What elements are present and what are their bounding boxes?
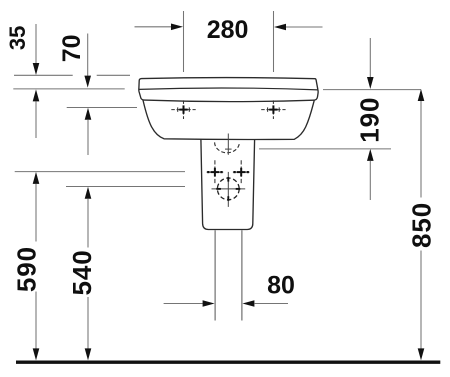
dimension 35 up arrowhead	[33, 89, 40, 101]
extension line for 590 (pedestal upper holes)	[15, 171, 185, 173]
extension line for 540 (pedestal lower hole)	[66, 186, 185, 188]
dimension 280 right arrow line	[286, 26, 323, 28]
drain pipe right line	[241, 230, 243, 320]
svg-text:280: 280	[207, 16, 249, 44]
drain centerline tick	[225, 148, 232, 150]
dimension 190 upper leader	[369, 38, 371, 77]
svg-text:540: 540	[67, 249, 97, 295]
dimension 80 right arrow line	[254, 303, 288, 305]
dimension 70 up arrowhead	[85, 108, 92, 120]
rim front edge line	[139, 88, 318, 90]
dimension 80 left arrow line	[164, 303, 203, 305]
svg-text:190: 190	[355, 97, 385, 143]
svg-text:35: 35	[5, 26, 30, 50]
pedestal drain circle target	[212, 172, 246, 207]
dimension 190 down arrowhead	[367, 77, 374, 89]
dimension 280 left arrowhead	[171, 24, 183, 31]
dimension 540 line lower	[87, 297, 89, 349]
dimension 70 upper leader	[87, 34, 89, 76]
dimension 850 up arrowhead	[418, 89, 425, 101]
floor line	[16, 361, 440, 364]
dimension 80 left arrowhead	[203, 300, 215, 307]
dimension 280 extension line left	[183, 11, 185, 72]
extension line A left segment	[14, 74, 73, 76]
drain hole dashed arc behind pedestal top	[215, 142, 240, 152]
washbasin rim band	[139, 78, 318, 102]
dimension 35 down arrowhead	[33, 63, 40, 75]
washbasin bowl fill	[143, 98, 315, 140]
pedestal (siphon cover)	[201, 139, 255, 230]
extension line A right segment	[97, 74, 130, 76]
dimension 35 lower leader	[35, 101, 37, 138]
dimension 280 left arrow line	[135, 26, 172, 28]
washbasin bowl outline	[143, 99, 315, 140]
dimension 280 extension line right	[273, 11, 275, 72]
tap/fixing hole cross left on basin	[171, 100, 195, 119]
dimension 590 up arrowhead	[33, 172, 40, 184]
dimension 35 upper leader	[35, 24, 37, 64]
svg-text:850: 850	[406, 202, 436, 248]
dimension 190 up arrowhead	[367, 149, 374, 161]
extension line B	[13, 88, 124, 90]
extension line C	[67, 107, 137, 109]
dimension 590 line upper	[35, 184, 37, 242]
dimension 540 up arrowhead	[85, 187, 92, 199]
dimension 70 down arrowhead	[84, 76, 91, 88]
dimension 590 down arrowhead	[33, 348, 40, 360]
dimension 70 lower leader	[87, 120, 89, 155]
dimension 280 right arrowhead	[274, 24, 286, 31]
svg-text:80: 80	[267, 271, 295, 299]
svg-text:590: 590	[12, 246, 42, 292]
dimension 540 line upper	[87, 199, 89, 248]
tap/fixing hole cross right on basin	[261, 100, 285, 119]
pedestal fixing hole cross right	[233, 160, 250, 184]
extension line rim to 850	[323, 89, 421, 91]
dimension 540 down arrowhead	[85, 348, 92, 360]
dimension 850 line upper	[420, 101, 422, 198]
drain pipe left line	[214, 230, 216, 320]
dimension 190 lower leader	[369, 161, 371, 200]
dimension 850 line lower	[420, 251, 422, 349]
dimension 80 right arrowhead	[242, 300, 254, 307]
drain centerline	[227, 134, 229, 155]
dimension 850 down arrowhead	[418, 348, 425, 360]
extension line at drain level	[259, 148, 391, 150]
dimension 590 line lower	[35, 292, 37, 349]
pedestal fixing hole cross left	[207, 160, 224, 184]
svg-text:70: 70	[58, 34, 86, 62]
